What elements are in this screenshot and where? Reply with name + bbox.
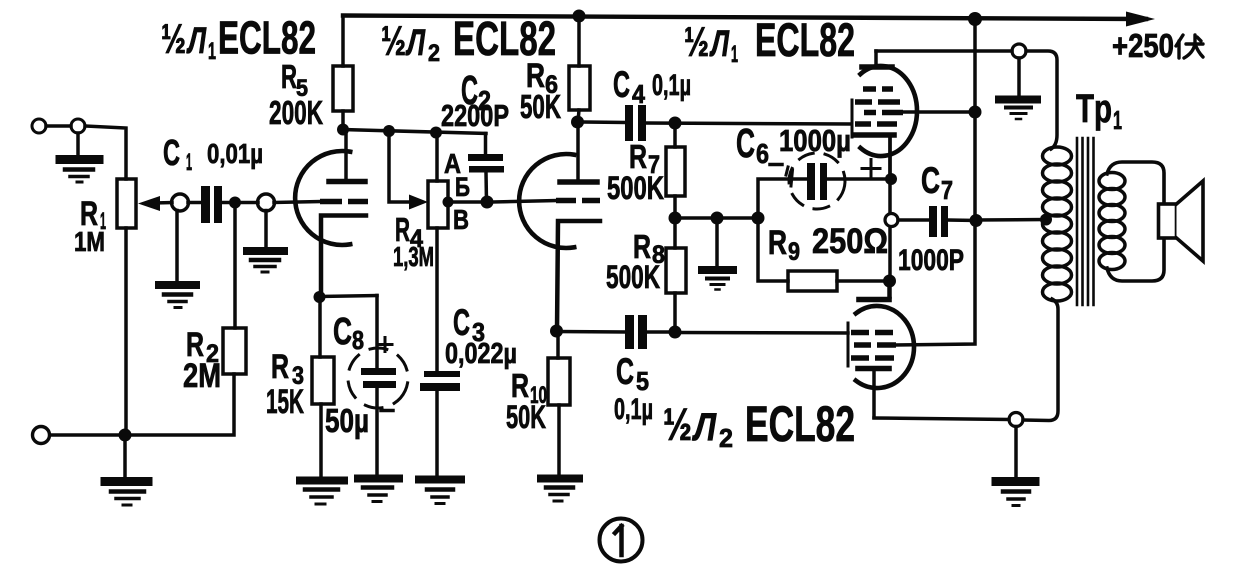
wire secondary to speaker loop bbox=[1107, 162, 1164, 281]
svg-text:50µ: 50µ bbox=[325, 402, 369, 439]
tube V4 grid dashes row1 bbox=[851, 330, 893, 336]
ground under divider bbox=[702, 266, 733, 274]
input terminal 1b bbox=[71, 119, 85, 133]
tube V4 envelope (lower output pentode) bbox=[856, 306, 914, 388]
svg-text:200K: 200K bbox=[269, 94, 323, 131]
svg-text:2: 2 bbox=[428, 40, 440, 67]
C6 minus sign bbox=[770, 163, 782, 167]
svg-text:250Ω: 250Ω bbox=[812, 222, 888, 261]
wire C6 right to cathode line bbox=[827, 177, 891, 181]
terminal anode bottom bbox=[1009, 413, 1023, 427]
wire cathode row to C5 bbox=[556, 330, 625, 334]
svg-text:½: ½ bbox=[663, 399, 692, 450]
wire R7 top lead bbox=[673, 123, 677, 147]
svg-text:0,022µ: 0,022µ bbox=[445, 338, 517, 370]
svg-text:500K: 500K bbox=[606, 259, 660, 295]
wire R3 bottom lead bbox=[319, 404, 323, 477]
capacitor C2 plates bbox=[468, 154, 503, 161]
transformer Tp1 primary winding bbox=[1043, 147, 1072, 165]
wire ground stem top right bbox=[1017, 58, 1021, 96]
node tube V2 cathode bbox=[550, 325, 563, 338]
svg-text:0,1µ: 0,1µ bbox=[614, 393, 653, 426]
wire C1 left terminal ground stem bbox=[175, 211, 179, 282]
ground bottom right bbox=[996, 477, 1035, 486]
svg-text:8: 8 bbox=[352, 325, 364, 355]
svg-text:50K: 50K bbox=[520, 88, 561, 125]
svg-text:50K: 50K bbox=[506, 399, 546, 435]
tube V3 cathode lead bbox=[888, 137, 892, 179]
tube V2 grid dashes bbox=[556, 198, 576, 204]
wire R7 bottom lead bbox=[673, 196, 677, 218]
svg-text:C: C bbox=[163, 132, 180, 173]
node R4 tap bbox=[443, 197, 454, 208]
wire C4 to grid of upper output tube bbox=[646, 123, 851, 124]
node input 2 ground bbox=[119, 429, 132, 442]
wire C2 top lead bbox=[484, 134, 488, 155]
wire B+ to transformer centre tap bbox=[976, 218, 1046, 222]
svg-text:1,3M: 1,3M bbox=[393, 241, 434, 272]
wire R9 right lead bbox=[837, 279, 889, 283]
wire C3 bottom lead bbox=[435, 391, 439, 475]
wire divider row bbox=[675, 216, 758, 220]
ground input top bbox=[60, 155, 99, 164]
wire R8 top lead bbox=[673, 218, 677, 248]
wire R10 top lead bbox=[556, 331, 560, 358]
wire ground stem input2 bbox=[123, 441, 127, 477]
tube V1 envelope (1/2 L1 ECL82 triode) bbox=[295, 151, 350, 245]
node wiper branch bbox=[383, 125, 395, 137]
tube V2 anode lead bbox=[576, 124, 580, 179]
tube V1 anode plate bbox=[329, 179, 365, 185]
svg-text:1: 1 bbox=[1113, 105, 1122, 135]
tube V4 grid bracket bbox=[847, 323, 850, 366]
potentiometer R1 bbox=[117, 179, 136, 228]
svg-text:1M: 1M bbox=[74, 226, 105, 257]
tube V2 envelope (1/2 L2 ECL82 triode) bbox=[519, 154, 574, 248]
svg-text:ECL82: ECL82 bbox=[755, 13, 855, 66]
wire input link bbox=[46, 124, 71, 128]
node C4/R7 bbox=[669, 117, 682, 130]
wire C1 to grid terminal bbox=[222, 201, 258, 205]
svg-text:5: 5 bbox=[636, 366, 649, 396]
node C5/R8 bbox=[669, 326, 682, 339]
node R6 top on rail bbox=[573, 10, 586, 23]
C8 plus sign bbox=[378, 338, 392, 352]
tube V3 grid dashes row4 bbox=[855, 121, 897, 127]
wire C8 bottom lead bbox=[375, 388, 379, 475]
svg-text:9: 9 bbox=[788, 238, 800, 266]
tube V2 anode plate bbox=[560, 179, 597, 185]
wiper arrow into R1 bbox=[138, 196, 160, 211]
svg-text:ECL82: ECL82 bbox=[218, 12, 316, 64]
capacitor C1 plates bbox=[201, 186, 210, 223]
svg-text:R: R bbox=[271, 348, 289, 386]
wire ground stem bottom right bbox=[1014, 427, 1018, 478]
node transformer centre tap bbox=[1040, 214, 1052, 226]
wire +250V top rail bbox=[343, 16, 1146, 20]
tube V1 anode lead bbox=[344, 133, 348, 179]
svg-text:2200P: 2200P bbox=[441, 98, 509, 133]
capacitor C7 plates bbox=[929, 206, 937, 237]
wire R10 bottom lead bbox=[557, 405, 561, 475]
svg-text:C: C bbox=[921, 160, 940, 201]
speaker horn bbox=[1177, 181, 1204, 261]
node upper screen bbox=[969, 106, 982, 119]
ground under C8 bbox=[358, 475, 399, 483]
capacitor C8 plates bbox=[361, 368, 396, 375]
wire C2 bottom lead bbox=[484, 173, 488, 203]
node R7/R8 bbox=[669, 212, 682, 225]
tube V3 screen dashes row3 bbox=[864, 110, 903, 116]
wire C8 top lead bbox=[375, 296, 379, 369]
resistor R3 bbox=[312, 357, 334, 404]
wire terminal to primary bottom bbox=[1023, 299, 1058, 421]
wire input to R1 top bbox=[85, 126, 126, 179]
node R9/C6 left bbox=[752, 212, 765, 225]
capacitor C3 plates bbox=[424, 371, 460, 377]
ground under C3 bbox=[419, 476, 461, 484]
node ground tap bbox=[711, 212, 724, 225]
node tube V1 cathode bbox=[314, 291, 326, 303]
wire grid lead tube1 bbox=[274, 202, 320, 203]
speaker box bbox=[1159, 204, 1177, 238]
terminal C1 left bbox=[172, 194, 189, 211]
wire terminal 1b ground stem bbox=[76, 133, 80, 156]
svg-text:½: ½ bbox=[684, 18, 709, 65]
wire C5 to node bbox=[647, 330, 675, 334]
wire C7 left bbox=[898, 218, 929, 222]
resistor R9 bbox=[788, 271, 837, 291]
tube V2 cathode bbox=[557, 221, 600, 331]
capacitor C5 plates bbox=[625, 315, 634, 349]
svg-text:C: C bbox=[453, 302, 470, 343]
tube V3 anode plate bbox=[862, 64, 892, 70]
tube V3 cathode bar bbox=[855, 132, 894, 138]
node R4 top bbox=[430, 127, 442, 139]
svg-text:Л: Л bbox=[405, 22, 426, 63]
wire R2 top lead bbox=[233, 208, 237, 328]
svg-text:6: 6 bbox=[756, 138, 769, 169]
wire R9 down branch bbox=[758, 218, 788, 281]
node rail/B+ bbox=[968, 12, 982, 26]
wire R4 bottom lead bbox=[435, 228, 439, 371]
wire upper screen lead bbox=[903, 110, 975, 114]
terminal C1 right bbox=[258, 194, 275, 211]
svg-text:+250: +250 bbox=[1112, 27, 1174, 64]
svg-text:C: C bbox=[333, 311, 352, 353]
node C7/B+ bbox=[970, 214, 983, 227]
tube V4 screen dashes row2 bbox=[854, 342, 896, 348]
resistor R2 bbox=[223, 328, 246, 374]
wire wiper feed R4 bbox=[389, 131, 410, 202]
wire cathode to C8 bbox=[320, 296, 378, 297]
wire ground stem divider bbox=[715, 224, 719, 266]
svg-text:Л: Л bbox=[709, 23, 730, 64]
node C6/cathode upper bbox=[885, 173, 897, 185]
svg-text:В: В bbox=[453, 204, 469, 235]
node C2 bottom / grid2 bbox=[481, 196, 494, 209]
character FU (volt) strokes bbox=[1176, 35, 1203, 58]
ground under R3 bbox=[300, 477, 344, 485]
tube V1 cathode bbox=[321, 216, 366, 298]
svg-text:R: R bbox=[768, 224, 787, 262]
C6 plus sign bbox=[862, 160, 880, 178]
tube V3 grid bracket bbox=[851, 100, 854, 137]
resistor R5 bbox=[333, 66, 353, 111]
tube V4 cathode lead bbox=[887, 281, 891, 297]
ground top right bbox=[999, 96, 1037, 104]
C8 minus sign bbox=[381, 409, 393, 413]
ground under C1 right terminal bbox=[247, 247, 284, 255]
node R2 top bbox=[229, 197, 241, 209]
ground under C1 left terminal bbox=[159, 281, 196, 289]
wire terminal to primary top bbox=[1026, 51, 1057, 149]
svg-text:Tp: Tp bbox=[1076, 87, 1112, 131]
wire C7 right bbox=[948, 218, 976, 222]
wire R3 top lead bbox=[318, 297, 322, 357]
transformer Tp1 secondary winding bbox=[1099, 173, 1125, 190]
svg-text:2M: 2M bbox=[183, 357, 221, 395]
transformer Tp1 core bbox=[1077, 138, 1094, 305]
node R9/cathode lower bbox=[883, 275, 896, 288]
ground under R10 bbox=[541, 475, 579, 483]
tube V3 anode lead bbox=[874, 51, 878, 65]
wire grid lead tube2 bbox=[493, 201, 556, 203]
tube V3 grid dashes row1 bbox=[863, 86, 893, 92]
svg-text:½: ½ bbox=[381, 17, 406, 64]
wire input 2 to node bbox=[50, 433, 119, 437]
potentiometer R4 bbox=[428, 181, 448, 228]
terminal cathode node bbox=[885, 214, 898, 227]
resistor R7 bbox=[666, 147, 685, 196]
svg-text:½: ½ bbox=[161, 15, 186, 62]
svg-text:15K: 15K bbox=[266, 383, 304, 421]
svg-text:Б: Б bbox=[455, 172, 470, 202]
svg-text:C: C bbox=[736, 120, 755, 166]
capacitor C6 dashed circle bbox=[785, 149, 850, 214]
wire R5 top lead bbox=[341, 16, 345, 67]
svg-text:7: 7 bbox=[941, 175, 953, 205]
svg-text:0,01µ: 0,01µ bbox=[207, 138, 263, 169]
svg-text:R: R bbox=[281, 58, 297, 95]
svg-text:1: 1 bbox=[731, 41, 738, 68]
arrow into R4 bbox=[409, 195, 428, 210]
tube V4 anode lead bbox=[872, 371, 876, 418]
svg-text:Л: Л bbox=[186, 20, 207, 61]
input terminal 2 bbox=[33, 427, 50, 444]
node R5/anode bbox=[337, 124, 349, 136]
svg-text:2: 2 bbox=[719, 423, 733, 453]
capacitor C6 plates bbox=[807, 163, 815, 200]
svg-text:500K: 500K bbox=[607, 170, 664, 206]
wire V4 anode to transformer bbox=[874, 418, 1009, 420]
wire R4 tap to grid node bbox=[448, 200, 487, 204]
tube V4 cathode bar bbox=[859, 297, 889, 303]
wire R5 bottom lead bbox=[341, 111, 345, 130]
svg-text:C: C bbox=[613, 64, 630, 105]
svg-text:Л: Л bbox=[692, 406, 717, 449]
tube V3 envelope (upper output pentode) bbox=[860, 66, 917, 156]
wire C4 row bbox=[584, 120, 625, 124]
wire C1 right terminal ground stem bbox=[264, 211, 268, 248]
resistor R6 bbox=[569, 66, 590, 110]
svg-text:0,1µ: 0,1µ bbox=[652, 69, 691, 102]
svg-text:ECL82: ECL82 bbox=[745, 396, 855, 452]
svg-text:1: 1 bbox=[208, 38, 216, 65]
capacitor C8 dashed circle bbox=[338, 338, 418, 418]
figure number one bbox=[615, 526, 622, 555]
wire arrow to C1 terminal bbox=[154, 201, 172, 205]
figure number circle bbox=[600, 519, 643, 562]
wire V3 anode to transformer bbox=[876, 49, 1012, 53]
wire R2 bottom lead bbox=[125, 374, 234, 435]
svg-text:1000µ: 1000µ bbox=[779, 123, 851, 158]
svg-text:C: C bbox=[616, 351, 634, 392]
C6 lead tick mark bbox=[786, 167, 793, 186]
terminal anode top bbox=[1012, 44, 1026, 58]
arrowhead +250V rail bbox=[1126, 12, 1155, 27]
resistor R10 bbox=[548, 358, 570, 405]
capacitor C4 plates bbox=[625, 105, 633, 141]
node R6/anode tube2 bbox=[571, 116, 584, 129]
wire to grid of lower output tube bbox=[675, 331, 848, 335]
tube V4 anode plate bbox=[858, 366, 889, 372]
ground under input 2 bbox=[105, 477, 148, 486]
tube V3 grid dashes row2 bbox=[855, 99, 900, 105]
tube V4 grid dashes row3 bbox=[851, 355, 894, 361]
resistor R8 bbox=[666, 248, 686, 293]
wire R6 top lead bbox=[577, 16, 581, 66]
wire B+ vertical bbox=[896, 19, 975, 345]
svg-text:4: 4 bbox=[632, 79, 645, 109]
input terminal 1a bbox=[32, 119, 46, 133]
wire R8 bottom lead bbox=[673, 293, 677, 332]
wire C6 up branch bbox=[758, 179, 807, 218]
wire R1 bottom lead bbox=[124, 228, 128, 435]
wire anode row tube1 bbox=[343, 130, 486, 134]
wire cathode bus vertical bbox=[888, 137, 892, 297]
wire R4 top lead bbox=[435, 133, 439, 182]
svg-text:1000P: 1000P bbox=[898, 244, 964, 277]
tube V1 grid dashes bbox=[320, 199, 342, 205]
wire terminal to C1 bbox=[188, 201, 201, 205]
svg-text:1: 1 bbox=[186, 149, 192, 176]
wire R6 bottom lead bbox=[578, 110, 579, 122]
